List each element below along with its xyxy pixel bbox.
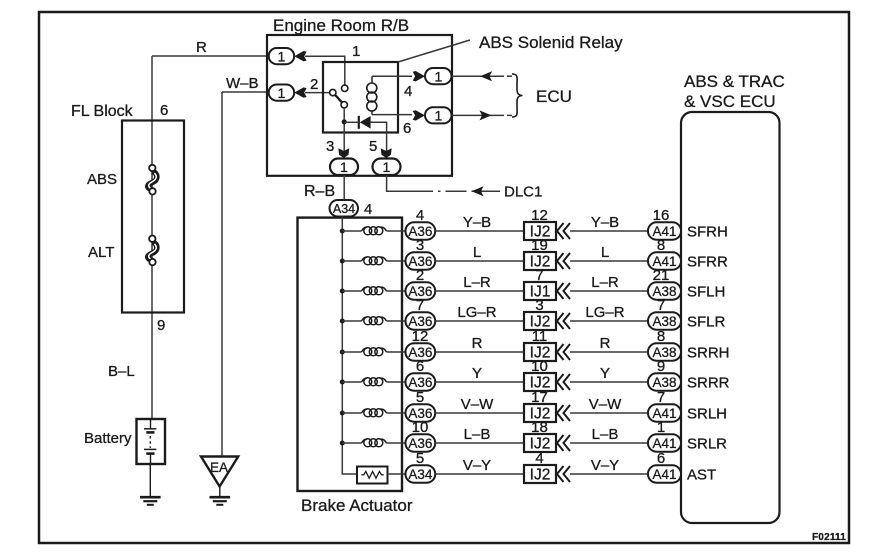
node row 5 <box>340 350 345 355</box>
ABS solenoid relay box <box>323 62 398 133</box>
arrow into pin 5 <box>381 148 392 158</box>
connector pin 3 <box>330 159 358 176</box>
connector A38 row 3 <box>648 282 681 299</box>
svg-text:SFRR: SFRR <box>687 254 728 271</box>
solenoid coil row 7 <box>362 409 387 417</box>
svg-text:A36: A36 <box>408 314 432 329</box>
connector A36 row 8 <box>406 434 436 451</box>
svg-text:1: 1 <box>435 68 443 84</box>
svg-text:1: 1 <box>278 85 286 101</box>
svg-text:A36: A36 <box>408 436 432 451</box>
svg-text:Y–B: Y–B <box>463 214 491 231</box>
svg-text:SRLR: SRLR <box>687 436 727 453</box>
relay coil <box>367 76 377 114</box>
Brake Actuator box <box>298 218 403 491</box>
node row 1 <box>340 229 345 234</box>
svg-text:V–Y: V–Y <box>463 457 491 474</box>
svg-text:L: L <box>473 244 481 261</box>
svg-text:ABS: ABS <box>87 171 117 188</box>
connector pin 5 <box>373 159 401 176</box>
wire diode anode to pin5 drop <box>371 122 387 158</box>
connector A36 row 4 <box>406 312 436 329</box>
arrow into pin 1 <box>294 51 306 61</box>
chevrons row 1 <box>557 223 570 239</box>
junction connector IJ2 row 7 <box>524 404 556 423</box>
Engine Room R/B box <box>267 35 452 176</box>
svg-text:1: 1 <box>352 43 360 60</box>
wire row 6 A36 to IJ2 <box>435 381 524 383</box>
ABS & TRAC & VSC ECU box <box>681 112 780 523</box>
connector A36 row 7 <box>406 404 436 421</box>
solenoid coil row 5 <box>362 348 387 356</box>
wire EA apex to ground <box>219 487 221 497</box>
wire row 1 coil to connector <box>387 230 406 232</box>
connector A41 row 1 <box>648 222 681 239</box>
connector A34 top <box>330 200 359 217</box>
solenoid coil row 4 <box>362 317 387 325</box>
wire row 4 IJ2 to A38 <box>570 320 648 322</box>
svg-text:Brake Actuator: Brake Actuator <box>301 496 413 515</box>
node row 6 <box>340 380 345 385</box>
junction node <box>342 119 347 124</box>
wire row 3 A36 to IJ1 <box>435 290 524 292</box>
connector A41 row 7 <box>648 404 681 421</box>
connector A41 row 2 <box>648 252 681 269</box>
svg-text:4: 4 <box>364 201 372 218</box>
svg-text:L–R: L–R <box>591 274 619 291</box>
node row 7 <box>340 411 345 416</box>
svg-text:A34: A34 <box>408 467 433 482</box>
wire row 4 bus to solenoid <box>342 320 361 322</box>
wire pin1 to relay switch <box>305 56 345 85</box>
svg-text:A38: A38 <box>652 375 676 390</box>
svg-text:SFRH: SFRH <box>687 224 728 241</box>
junction connector IJ2 row 8 <box>524 434 556 453</box>
svg-text:EA: EA <box>210 460 228 475</box>
wire row 2 bus to solenoid <box>342 260 361 262</box>
svg-text:Battery: Battery <box>84 430 132 447</box>
svg-text:SRLH: SRLH <box>687 406 727 423</box>
svg-text:Engine Room R/B: Engine Room R/B <box>273 16 409 35</box>
svg-text:6: 6 <box>403 120 411 137</box>
wire ECU upper <box>452 75 504 77</box>
arrow into pin 6 <box>413 110 425 120</box>
svg-text:2: 2 <box>310 76 318 93</box>
svg-text:SFLH: SFLH <box>687 284 725 301</box>
wire W-B horizontal to pin 2 <box>222 91 268 93</box>
wire W-B vertical down to EA <box>221 92 223 456</box>
ABS & TRAC & VSC ECU title <box>684 72 785 111</box>
svg-text:R: R <box>196 39 207 56</box>
wire row 3 IJ1 to A38 <box>570 290 648 292</box>
ECU brace <box>512 74 523 117</box>
wire row 1 bus to solenoid <box>342 230 361 232</box>
chevrons row 5 <box>557 344 570 360</box>
junction connector IJ1 row 3 <box>524 282 556 301</box>
svg-text:A41: A41 <box>652 436 676 451</box>
FL Block box <box>122 121 184 313</box>
svg-text:R–B: R–B <box>304 183 335 200</box>
connector A36 row 1 <box>406 222 436 239</box>
leader line to ABS Solenid Relay label <box>398 40 470 62</box>
connector A34 row 9 <box>406 465 436 482</box>
svg-text:LG–R: LG–R <box>585 304 624 321</box>
junction connector IJ2 row 4 <box>524 312 556 331</box>
wire row 7 bus to solenoid <box>342 412 361 414</box>
wire R horizontal to Engine Room R/B pin 1 <box>152 55 268 57</box>
svg-text:V–W: V–W <box>589 396 622 413</box>
svg-text:B–L: B–L <box>108 363 135 380</box>
resistor (brake actuator) <box>357 467 388 484</box>
connector A36 row 3 <box>406 282 436 299</box>
chevrons row 8 <box>557 435 570 451</box>
solenoid coil row 6 <box>362 378 387 386</box>
chevrons row 3 <box>557 283 570 299</box>
svg-text:ABS Solenid Relay: ABS Solenid Relay <box>479 33 623 52</box>
wire resistor to A34 <box>388 473 406 475</box>
wire row 4 coil to connector <box>387 320 406 322</box>
svg-text:V–Y: V–Y <box>591 457 619 474</box>
diode (relay) <box>344 116 370 129</box>
svg-text:L–B: L–B <box>592 426 619 443</box>
svg-text:Y: Y <box>600 365 610 382</box>
connector A38 row 6 <box>648 373 681 390</box>
connector pin 4 <box>425 68 452 84</box>
svg-text:1: 1 <box>278 48 286 64</box>
wire row 3 coil to connector <box>387 290 406 292</box>
svg-text:3: 3 <box>326 138 334 155</box>
chevrons row 9 <box>557 466 570 482</box>
svg-text:L–R: L–R <box>463 274 491 291</box>
connector A38 row 5 <box>648 343 681 360</box>
wire row 8 coil to connector <box>387 442 406 444</box>
svg-text:SRRR: SRRR <box>687 375 730 392</box>
solenoid coil row 1 <box>362 227 387 235</box>
node row 3 <box>340 289 345 294</box>
wire row 7 IJ2 to A41 <box>570 412 648 414</box>
svg-text:L–B: L–B <box>464 426 491 443</box>
wire ECU lower <box>452 114 504 116</box>
svg-text:4: 4 <box>404 83 412 100</box>
arrow into pin 3 <box>338 148 349 158</box>
svg-text:LG–R: LG–R <box>457 304 496 321</box>
connector A38 row 4 <box>648 312 681 329</box>
connector pin 2 (W-B input) <box>269 85 295 101</box>
arrow into pin 2 <box>294 87 306 97</box>
solenoid coil row 2 <box>362 257 387 265</box>
connector A41 row 9 <box>648 465 681 482</box>
wire row 5 coil to connector <box>387 351 406 353</box>
chevrons row 6 <box>557 374 570 390</box>
wire pin5 to DLC1 (dash-dot) <box>387 175 412 191</box>
wire pin2 to switch contact <box>305 92 330 94</box>
wire row 5 bus to solenoid <box>342 351 361 353</box>
wire row 6 bus to solenoid <box>342 381 361 383</box>
ground (battery) <box>140 497 161 505</box>
junction connector IJ2 row 5 <box>524 343 556 362</box>
solenoid coil row 8 <box>362 439 387 447</box>
svg-text:F02111: F02111 <box>812 532 846 543</box>
wire row 8 A36 to IJ2 <box>435 442 524 444</box>
node row 8 <box>340 441 345 446</box>
chevrons row 7 <box>557 405 570 421</box>
connector A36 row 2 <box>406 252 436 269</box>
wire row 3 bus to solenoid <box>342 290 361 292</box>
svg-text:W–B: W–B <box>226 75 259 92</box>
wire row 9 A34 to IJ2 <box>435 473 524 475</box>
wire row 8 IJ2 to A41 <box>570 442 648 444</box>
svg-text:A34: A34 <box>333 202 355 216</box>
svg-text:ALT: ALT <box>88 244 114 261</box>
svg-text:A41: A41 <box>652 467 676 482</box>
junction connector IJ2 row 1 <box>524 222 556 241</box>
connector A41 row 8 <box>648 434 681 451</box>
svg-text:R: R <box>472 335 483 352</box>
bus wire (A34 down left side) <box>342 217 357 475</box>
arrow on lower ECU wire <box>480 110 492 120</box>
ground (EA) <box>210 497 231 505</box>
fusible link ALT <box>148 236 157 266</box>
svg-text:6: 6 <box>160 102 168 119</box>
wire row 8 bus to solenoid <box>342 442 361 444</box>
wire row 2 coil to connector <box>387 260 406 262</box>
connector A36 row 5 <box>406 343 436 360</box>
solenoid coil row 3 <box>362 287 387 295</box>
svg-text:Y: Y <box>472 365 482 382</box>
relay switch contacts <box>330 85 348 108</box>
wire row 4 A36 to IJ2 <box>435 320 524 322</box>
wire row 6 IJ2 to A38 <box>570 381 648 383</box>
svg-text:9: 9 <box>157 317 165 334</box>
arrow into pin 4 <box>413 71 425 81</box>
wire R vertical from R node down through FL Block to Battery <box>151 56 153 419</box>
ground EA triangle <box>201 457 238 487</box>
svg-text:DLC1: DLC1 <box>504 184 542 201</box>
wire coil top to pin 4 <box>372 75 412 77</box>
wire row 1 A36 to IJ2 <box>435 230 524 232</box>
svg-text:A36: A36 <box>408 375 432 390</box>
svg-text:ABS & TRAC: ABS & TRAC <box>684 72 785 91</box>
svg-text:1: 1 <box>340 159 348 175</box>
connector pin 6 <box>425 107 452 123</box>
svg-text:5: 5 <box>369 138 377 155</box>
wire row 5 IJ2 to A38 <box>570 351 648 353</box>
wire row 9 IJ2 to A41 <box>570 473 648 475</box>
svg-text:Y–B: Y–B <box>591 214 619 231</box>
svg-text:1: 1 <box>435 108 443 124</box>
wire row 5 A36 to IJ2 <box>435 351 524 353</box>
wire row 6 coil to connector <box>387 381 406 383</box>
wire row 7 coil to connector <box>387 412 406 414</box>
junction connector IJ2 row 6 <box>524 373 556 392</box>
svg-text:V–W: V–W <box>461 396 494 413</box>
wire row 2 IJ2 to A41 <box>570 260 648 262</box>
svg-text:A38: A38 <box>652 314 676 329</box>
fusible link ABS <box>148 165 157 195</box>
svg-text:SRRH: SRRH <box>687 345 730 362</box>
connector A36 row 6 <box>406 373 436 390</box>
svg-text:1: 1 <box>383 159 391 175</box>
svg-text:SFLR: SFLR <box>687 314 726 331</box>
chevrons row 4 <box>557 313 570 329</box>
wire switch to node <box>343 108 345 158</box>
wire pin3 to A34 <box>343 175 345 200</box>
connector pin 1 (R input) <box>269 48 295 64</box>
arrow on upper ECU wire <box>480 71 492 81</box>
wire row 7 A36 to IJ2 <box>435 412 524 414</box>
chevrons row 2 <box>557 253 570 269</box>
svg-text:R: R <box>600 335 611 352</box>
junction connector IJ2 row 9 <box>524 465 556 484</box>
svg-text:& VSC ECU: & VSC ECU <box>684 92 776 111</box>
wire row 1 IJ2 to A41 <box>570 230 648 232</box>
svg-text:L: L <box>601 244 609 261</box>
svg-text:AST: AST <box>687 467 716 484</box>
svg-text:IJ2: IJ2 <box>530 467 551 484</box>
node row 2 <box>340 259 345 264</box>
wire battery to ground <box>149 464 151 497</box>
node row 4 <box>340 319 345 324</box>
junction connector IJ2 row 2 <box>524 252 556 271</box>
battery <box>137 419 166 464</box>
arrow to DLC1 <box>472 186 484 196</box>
wire coil bottom to pin 6 <box>372 114 412 116</box>
wire row 2 A36 to IJ2 <box>435 260 524 262</box>
svg-text:ECU: ECU <box>536 87 572 106</box>
svg-text:FL Block: FL Block <box>71 103 134 120</box>
